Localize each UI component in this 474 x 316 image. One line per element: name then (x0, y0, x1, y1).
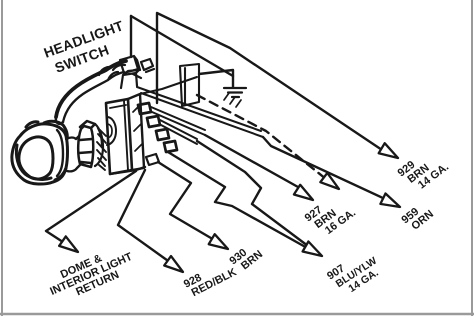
body face boss (107, 117, 116, 145)
body bottom edge (110, 167, 145, 174)
wire ground vertical (130, 16, 132, 57)
frame border right (471, 0, 473, 316)
harness lead pair 959 (137, 87, 263, 137)
label dome interior light return (44, 241, 139, 308)
terminal tab 1 (138, 103, 151, 114)
terminal tab 3 (156, 129, 169, 140)
arrow dome (59, 236, 78, 252)
harness lead pair mid (160, 120, 197, 144)
wire 930 chevron C1 (158, 162, 216, 241)
knob (12, 121, 68, 184)
switch body front face (106, 99, 132, 174)
label 959 (399, 199, 436, 235)
arrow 930 (209, 234, 228, 249)
washer ring (95, 124, 103, 166)
wire to chevron C3 (197, 141, 308, 246)
switch body top box (121, 70, 139, 88)
wire 927 (205, 135, 298, 187)
body face inner edge (110, 101, 128, 170)
bracket (56, 61, 126, 117)
label 929 (396, 143, 451, 197)
terminal tab 4 (164, 141, 177, 152)
body top face (140, 77, 197, 94)
rear connector plate (180, 64, 199, 106)
frame border left (1, 0, 3, 316)
wire 928 (118, 170, 171, 263)
body side hatch (133, 105, 142, 151)
arrow dashed (320, 173, 339, 189)
wire 929 vertical (156, 14, 158, 103)
wire ground diagonal (131, 16, 233, 76)
switch body right side (128, 94, 144, 170)
clip (120, 56, 140, 73)
label headlight switch (42, 17, 126, 61)
arrow 929 (379, 143, 398, 158)
terminal tab 2 (147, 116, 160, 127)
label 907 (325, 245, 385, 301)
hex nut (78, 121, 95, 167)
ground stem (199, 70, 233, 87)
harness lead pair 927 (151, 107, 205, 135)
shaft (66, 136, 80, 171)
arrow 928 (164, 256, 183, 272)
arrow 959 (380, 194, 400, 208)
spring hatch (97, 130, 106, 170)
ground symbol (224, 88, 246, 97)
wire 907 chevron C2 (168, 152, 309, 249)
wire dashed (197, 95, 326, 179)
bracket squiggles (113, 59, 154, 78)
lower connector tab (146, 154, 159, 165)
frame border bottom (0, 313, 474, 316)
label 927 (303, 189, 358, 242)
label 930 (227, 240, 265, 277)
label 928 (182, 256, 239, 300)
wire 929 diagonal (157, 13, 385, 152)
arrow 927 (294, 185, 313, 200)
wire dome return (46, 171, 136, 244)
arrow 907 (303, 242, 322, 257)
wire 959 jog (263, 137, 385, 199)
